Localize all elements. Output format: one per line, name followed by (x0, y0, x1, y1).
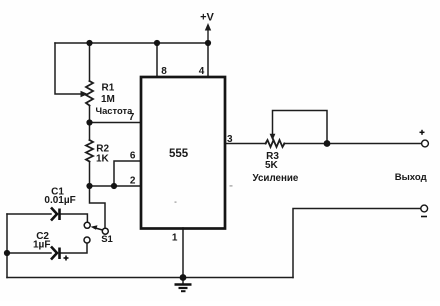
wire pin 2 (90, 185, 142, 187)
node junction dots (4, 40, 331, 281)
ground (175, 278, 192, 292)
node pin4 +V tap (205, 40, 211, 46)
wire pin 1 to ground rail (182, 228, 184, 278)
svg-text:1K: 1K (96, 154, 110, 165)
R3 wiper arrowhead (270, 134, 276, 141)
svg-text:4: 4 (199, 66, 205, 77)
wire pin 4 (207, 43, 209, 77)
wire C2 branch (7, 252, 51, 254)
svg-text:1: 1 (172, 233, 178, 244)
wire R2 bottom (89, 162, 91, 186)
switch S1 (84, 222, 108, 243)
wire top supply rail (55, 42, 208, 44)
svg-text:+V: +V (200, 12, 214, 24)
label R3 value (253, 151, 299, 184)
R1 wiper arrowhead (81, 91, 89, 97)
wire R1 wiper loop (55, 43, 82, 94)
wire left rail to bottom (6, 253, 8, 278)
wire pin 7 (90, 122, 142, 124)
pin labels (129, 66, 233, 244)
wire C1 branch (7, 213, 51, 215)
node R1 top (86, 40, 92, 46)
wire minus terminal run (293, 209, 421, 278)
label R2 value (96, 144, 110, 165)
svg-text:Частота: Частота (96, 105, 134, 116)
wire pin 6 (114, 161, 141, 186)
capacitor C2 (51, 247, 60, 260)
IC U1 555 (141, 77, 225, 229)
wire switch common feed (90, 186, 106, 228)
svg-text:8: 8 (161, 66, 167, 77)
resistor R1 (86, 81, 93, 106)
node pin2 left (86, 183, 92, 189)
svg-text:6: 6 (130, 151, 136, 162)
svg-text:555: 555 (169, 148, 189, 160)
label C1 value (44, 186, 75, 206)
label R1 value (96, 83, 134, 117)
svg-text:3: 3 (227, 134, 233, 145)
svg-text:S1: S1 (101, 234, 113, 245)
label C2 value (33, 231, 50, 251)
node R3 output junction (324, 140, 331, 147)
node pin2 mid (111, 183, 117, 189)
wire pin 3 output (225, 143, 266, 145)
svg-text:1µF: 1µF (33, 240, 50, 251)
svg-text:Усиление: Усиление (253, 173, 299, 184)
svg-text:Выход: Выход (395, 172, 427, 183)
node ground rail (180, 274, 187, 281)
power +V arrow (205, 23, 211, 43)
wire junction to plus terminal (327, 143, 422, 145)
svg-text:R1: R1 (102, 83, 115, 94)
wire R3 to output junction (284, 143, 327, 145)
wire R1 bottom to pin2 rail (89, 106, 91, 140)
capacitor C1 (51, 208, 60, 221)
output terminal plus (422, 140, 429, 147)
svg-text:1M: 1M (101, 94, 115, 105)
svg-text:0.01µF: 0.01µF (44, 195, 75, 206)
svg-text:2: 2 (130, 176, 136, 187)
wire bottom ground rail (7, 277, 293, 279)
node pin8 tap (154, 40, 160, 46)
resistor R3 (266, 140, 285, 147)
output terminal minus (421, 205, 428, 212)
C2 polarity plus (64, 256, 69, 261)
svg-text:5K: 5K (265, 160, 279, 171)
wire R1 top feed (89, 43, 91, 81)
wire left rail C1 to C2 (6, 214, 8, 253)
wire R3 wiper loop (273, 111, 328, 144)
node C2 left rail (4, 250, 10, 256)
node pin7 tap (86, 119, 92, 125)
wire speck artifacts (230, 185, 233, 186)
wire pin 8 (156, 43, 158, 77)
resistor R2 (86, 140, 93, 162)
